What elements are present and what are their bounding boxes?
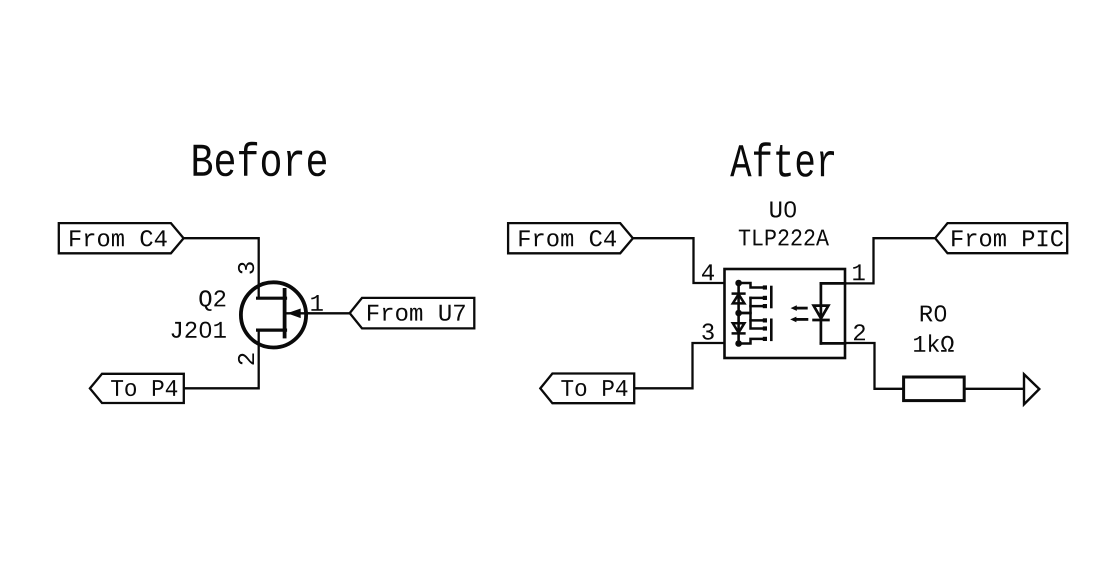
label TLP222A — [739, 229, 829, 245]
net label To P4 (before) — [90, 374, 184, 403]
pin 1 of Q2 (gate) — [311, 295, 323, 311]
MOSFET M1 (upper output FET) — [739, 283, 772, 313]
wire U0 pin 1 to From PIC — [845, 238, 935, 283]
junction dot pin4 node — [735, 280, 742, 287]
optocoupler U0 body — [725, 269, 846, 358]
label 1kΩ — [914, 334, 954, 351]
net label From PIC — [935, 223, 1067, 253]
junction dot pin3 node — [735, 340, 742, 347]
pin 2 number — [854, 324, 865, 340]
label U0 — [770, 201, 796, 217]
label J201 — [172, 322, 226, 338]
net label From U7 — [350, 298, 475, 329]
body diode D2 (pointing down) — [733, 323, 745, 333]
title After — [730, 142, 834, 177]
light arrow lower — [790, 317, 807, 323]
wire R0 to output arrow — [964, 388, 1023, 390]
net label To P4 (after) — [540, 374, 634, 404]
output arrow (open triangle) — [1024, 374, 1039, 404]
net label From C4 (before) — [59, 223, 184, 253]
label R0 — [921, 305, 946, 321]
net label From C4 (after) — [508, 223, 633, 253]
transistor Q2 — [241, 282, 309, 347]
body diode D1 (pointing up) — [733, 294, 745, 304]
pin 3 number — [702, 323, 713, 339]
light arrow upper — [791, 305, 807, 311]
pin 4 number — [702, 264, 714, 280]
pin 1 number — [853, 264, 865, 280]
wire To P4 to Q2 source — [184, 330, 259, 388]
wire To P4 to U0 pin 3 — [634, 343, 724, 388]
MOSFET M2 (lower output FET) — [739, 313, 772, 344]
wire U0 pin 2 to R0 — [845, 343, 904, 389]
junction dot common source node — [735, 310, 742, 317]
title Before — [194, 142, 327, 177]
pin 2 of Q2 (source) — [238, 354, 254, 365]
label Q2 — [199, 290, 225, 311]
wire From C4 to U0 pin 4 — [633, 238, 725, 283]
resistor R0 — [904, 377, 965, 401]
output common line (drains chain) — [737, 283, 740, 344]
wire From C4 to Q2 drain — [184, 238, 259, 298]
LED input diode — [814, 283, 845, 343]
wire Q2 gate to From U7 — [309, 312, 350, 314]
pin 3 of Q2 (drain) — [238, 262, 254, 273]
